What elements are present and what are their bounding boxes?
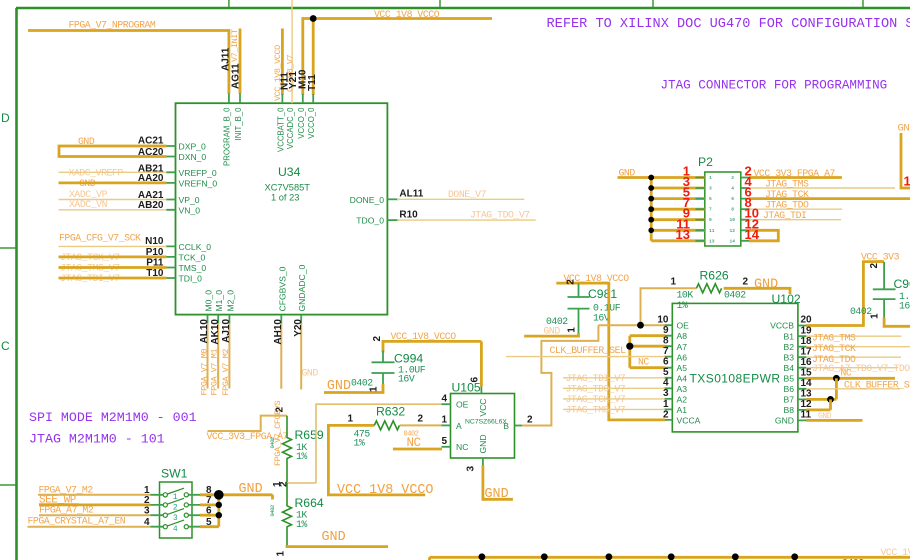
wire P2 pin12-pin14 loop — [749, 230, 778, 241]
svg-text:AB20: AB20 — [138, 200, 164, 211]
svg-text:NC: NC — [456, 442, 468, 452]
zone tick top 4 — [862, 0, 864, 8]
svg-text:GND: GND — [818, 412, 832, 421]
svg-text:4: 4 — [663, 378, 669, 389]
wire SW1 pin8 to GND — [200, 495, 273, 500]
wire JTAG_TCK B2 — [806, 346, 910, 348]
wire FPGA_V7_M0 — [207, 323, 209, 389]
svg-text:AH10: AH10 — [273, 319, 284, 345]
svg-text:JTAG CONNECTOR FOR PROGRAMMING: JTAG CONNECTOR FOR PROGRAMMING — [661, 79, 888, 93]
junction rail 6 — [791, 553, 798, 560]
svg-text:6: 6 — [731, 196, 734, 202]
svg-text:2: 2 — [527, 415, 533, 426]
wire B5-B7 tie vertical — [835, 378, 838, 399]
wire R632 pin2 to U105 A — [400, 424, 442, 426]
level shifter U102 box — [672, 303, 798, 432]
svg-text:A5: A5 — [677, 363, 688, 373]
svg-text:CFGBVS_0: CFGBVS_0 — [277, 266, 287, 311]
svg-text:B6: B6 — [783, 384, 794, 394]
wire JTAG_TCK_V7 to A2 — [563, 398, 665, 400]
wire V7_INIT to INIT_B_0 — [239, 29, 242, 95]
svg-text:XADC_VREFP: XADC_VREFP — [69, 168, 124, 179]
pin stub INIT_B_0 AG11 — [239, 94, 241, 104]
svg-text:JTAG_A7_TDO_V7_TDO: JTAG_A7_TDO_V7_TDO — [812, 363, 910, 374]
svg-text:0402: 0402 — [269, 437, 276, 449]
svg-text:JTAG_TMS: JTAG_TMS — [765, 178, 809, 189]
svg-text:AK10: AK10 — [210, 319, 221, 345]
svg-text:FPGA_V7_M0: FPGA_V7_M0 — [199, 349, 209, 396]
svg-text:VCC_3V3_FPGA_A7: VCC_3V3_FPGA_A7 — [754, 168, 836, 179]
svg-text:VREFP_0: VREFP_0 — [179, 168, 217, 178]
svg-text:3: 3 — [663, 388, 669, 399]
connector P2 box — [705, 172, 741, 246]
wire VCCA rail vertical — [609, 282, 665, 420]
svg-text:JTAG_TDO_V7: JTAG_TDO_V7 — [470, 210, 530, 221]
svg-text:AJ10: AJ10 — [221, 319, 232, 343]
P2 left pin stubs — [696, 178, 705, 241]
wire JTAG_TMS_V7 to A1 — [563, 408, 665, 410]
svg-text:4: 4 — [173, 525, 178, 534]
wire DONE_V7 — [397, 198, 524, 200]
svg-text:DONE_0: DONE_0 — [350, 195, 385, 205]
wire SW1 pin5 — [200, 525, 219, 528]
zone tick top 2 — [439, 0, 441, 8]
U102 left pin stubs — [664, 325, 672, 420]
junction rail 3 — [606, 553, 613, 560]
bottom power rail VCC_1V8 — [430, 557, 910, 560]
svg-text:AG11: AG11 — [231, 63, 242, 89]
svg-text:1: 1 — [870, 313, 881, 319]
svg-text:TMS_0: TMS_0 — [179, 263, 207, 273]
wire Y21 VCCADC drop — [291, 0, 293, 103]
svg-text:VCCA: VCCA — [677, 416, 701, 426]
wire N11 VCCBATT drop — [281, 29, 284, 96]
svg-text:10: 10 — [729, 217, 735, 223]
svg-text:A1: A1 — [677, 405, 688, 415]
svg-text:20: 20 — [801, 314, 813, 325]
net SEE_WP underline — [39, 503, 79, 505]
svg-text:16V: 16V — [593, 312, 610, 323]
svg-text:AL11: AL11 — [399, 188, 423, 199]
pin stub M10 — [302, 94, 304, 103]
svg-text:SW1: SW1 — [161, 467, 188, 481]
wire JTAG_TDI from pin10 — [749, 219, 841, 221]
svg-text:VCC_1V: VCC_1V — [881, 547, 910, 558]
junction P2 pin9 — [648, 217, 654, 223]
junction SW1 pin6 — [216, 512, 222, 518]
svg-text:12: 12 — [801, 399, 813, 410]
svg-text:VCCBATT_0: VCCBATT_0 — [276, 107, 285, 152]
SW1 switch element 3 — [151, 509, 201, 523]
junction P2 pin11 — [648, 228, 654, 234]
U105 pin stub A — [442, 424, 451, 426]
svg-text:GND: GND — [327, 379, 351, 394]
svg-text:8: 8 — [731, 207, 734, 213]
svg-text:1%: 1% — [354, 438, 365, 449]
svg-text:15: 15 — [801, 367, 813, 378]
wire FPGA_V7_M2 — [228, 323, 230, 389]
svg-text:NC: NC — [841, 368, 852, 379]
junction P2 pin7 — [648, 206, 654, 212]
svg-text:4: 4 — [144, 517, 150, 528]
junction SW1 pin7 — [216, 502, 222, 508]
svg-text:FPGA_V7_M1: FPGA_V7_M1 — [210, 349, 220, 396]
wire SW1 ganged vertical — [217, 495, 220, 527]
wire GND to VREFN — [59, 181, 167, 184]
svg-text:T11: T11 — [307, 74, 318, 91]
wire U102 OE row — [598, 324, 665, 326]
svg-text:A6: A6 — [677, 352, 688, 362]
svg-text:GND: GND — [485, 487, 509, 502]
svg-text:12: 12 — [729, 228, 735, 234]
svg-text:1: 1 — [441, 415, 447, 426]
switch SW1 box — [160, 482, 193, 538]
U105 pin stub B — [515, 425, 524, 427]
junction B5 — [833, 375, 840, 382]
pin stub PROGRAM_B_0 AJ11 — [228, 94, 230, 104]
svg-text:9: 9 — [709, 217, 712, 223]
wire P2 pin9 — [651, 218, 705, 221]
svg-text:17: 17 — [801, 346, 813, 357]
svg-text:GNDADC_0: GNDADC_0 — [297, 264, 307, 311]
svg-text:0402: 0402 — [724, 290, 746, 301]
wire JTAG_TDI_V7 to A4 — [563, 377, 665, 379]
wire CLK_BUFFER_SEL B6 — [806, 388, 900, 390]
svg-text:5: 5 — [441, 436, 447, 447]
svg-text:9: 9 — [663, 325, 669, 336]
wire NC stub — [393, 448, 442, 451]
wire VCC_1V8_VCCO top rail with M10 drop — [303, 19, 492, 96]
wire XADC_VN — [59, 209, 167, 211]
svg-text:R664: R664 — [295, 496, 324, 510]
zone tick left 2 — [0, 484, 16, 486]
wire JTAG_TMS from pin4 — [749, 187, 895, 189]
wire XADC_VREFP — [59, 171, 167, 173]
svg-text:AL10: AL10 — [199, 319, 210, 344]
svg-text:VCCO_0: VCCO_0 — [307, 107, 316, 139]
svg-text:FPGA_V7_M2: FPGA_V7_M2 — [221, 349, 231, 396]
wire CLK_BUFFER_SEL to A6 — [506, 356, 665, 358]
wire VCC to U105 pin6 — [480, 341, 483, 386]
svg-text:7: 7 — [663, 346, 669, 357]
FPGA U34 box — [176, 103, 388, 314]
svg-text:GND: GND — [478, 434, 488, 453]
wire P2 pin3 — [651, 187, 705, 190]
svg-text:B1: B1 — [783, 331, 794, 341]
svg-text:7: 7 — [709, 207, 712, 213]
svg-text:13: 13 — [676, 227, 690, 242]
svg-text:18: 18 — [801, 336, 813, 347]
svg-text:M1_0: M1_0 — [214, 290, 224, 312]
svg-text:5: 5 — [663, 367, 669, 378]
svg-text:TCK_0: TCK_0 — [179, 252, 206, 262]
svg-text:B2: B2 — [783, 342, 794, 352]
svg-text:B8: B8 — [783, 405, 794, 415]
junction rail 2 — [541, 553, 548, 560]
svg-text:GND: GND — [544, 325, 561, 336]
svg-text:1: 1 — [671, 277, 677, 288]
junction SW1 pin8 — [214, 490, 224, 500]
svg-text:SPI MODE M2M1M0 - 001: SPI MODE M2M1M0 - 001 — [29, 410, 197, 425]
pin stub TDO_0 R10 — [387, 219, 398, 221]
svg-text:NC: NC — [407, 436, 421, 450]
svg-text:5: 5 — [709, 196, 712, 202]
svg-text:GND: GND — [302, 368, 319, 379]
capacitor C994 top wire VCC_1V8_VCCO — [383, 341, 481, 352]
wire SW1 pin6 — [200, 514, 219, 517]
svg-text:1: 1 — [663, 399, 669, 410]
svg-text:VCCADC_0: VCCADC_0 — [286, 107, 295, 149]
svg-text:0402: 0402 — [269, 505, 276, 517]
wire JTAG_TDO B3 — [806, 356, 901, 358]
svg-text:14: 14 — [745, 227, 760, 242]
pin stub VCCBATT_0 N11 — [281, 94, 283, 103]
svg-text:VP_0: VP_0 — [179, 195, 200, 205]
svg-text:3: 3 — [144, 506, 150, 517]
svg-text:1%: 1% — [296, 451, 307, 462]
svg-text:INIT_B_0: INIT_B_0 — [234, 107, 243, 141]
wire JTAG_TMS_V7 — [59, 266, 167, 269]
wire R626 pin1 to OE — [641, 288, 697, 325]
svg-text:1: 1 — [348, 414, 354, 425]
U105 pin stub GND bottom — [482, 458, 484, 467]
sheet border left — [15, 8, 18, 560]
svg-text:A: A — [456, 421, 462, 431]
U105 pin stub OE — [442, 403, 451, 405]
svg-text:U34: U34 — [278, 165, 301, 179]
wire JTAG_TDO_V7 to A3 — [563, 387, 665, 389]
sheet border top — [16, 7, 910, 10]
zone tick top 1 — [228, 0, 230, 8]
svg-text:16V: 16V — [398, 374, 415, 385]
wire VCC_1V8_VCCO to R632 — [328, 425, 425, 495]
svg-text:JTAG_TDI: JTAG_TDI — [763, 210, 806, 221]
svg-text:A8: A8 — [677, 331, 688, 341]
svg-text:VCCB: VCCB — [770, 321, 794, 331]
svg-text:16: 16 — [899, 300, 910, 311]
resistor R664 — [283, 483, 292, 547]
svg-text:A2: A2 — [677, 395, 688, 405]
svg-text:CLK_BUFFER_SEL: CLK_BUFFER_SEL — [550, 345, 627, 356]
svg-text:FPGA_CRYSTAL_A7_EN: FPGA_CRYSTAL_A7_EN — [28, 515, 126, 526]
wire C9xx pin1 to GND — [884, 318, 910, 327]
junction P2 pin3 — [648, 185, 654, 191]
svg-text:CCLK_0: CCLK_0 — [179, 242, 212, 252]
svg-text:GND: GND — [754, 277, 778, 292]
svg-text:C90: C90 — [894, 277, 910, 291]
junction R626 at OE — [637, 322, 644, 329]
svg-text:1%: 1% — [296, 519, 307, 530]
wire JTAG_TCK_V7 — [59, 255, 167, 258]
svg-text:TDO_0: TDO_0 — [356, 216, 384, 226]
wire U105 B to U102 OE net — [522, 325, 598, 425]
wire C981 to GND — [524, 333, 578, 336]
zone tick top 3 — [652, 0, 654, 8]
U102 right pin stubs — [798, 326, 807, 421]
svg-text:VCC_3V3: VCC_3V3 — [861, 252, 900, 263]
wire R664 to GND — [287, 545, 388, 547]
svg-text:19: 19 — [801, 325, 813, 336]
wire FPGA_V7_CFGBVS — [280, 323, 282, 389]
svg-text:6: 6 — [663, 357, 669, 368]
wire P2 pin11 — [651, 229, 705, 232]
P2 right pin stubs — [741, 178, 751, 241]
wire SW1 pin3 — [39, 514, 151, 516]
capacitor C994 plates — [372, 351, 395, 386]
wire GND from GNDADC — [300, 323, 302, 390]
wire U102 A7 — [630, 345, 665, 348]
wire B7 — [806, 398, 836, 401]
resistor R632 — [374, 421, 399, 430]
resistor R626 — [696, 284, 721, 293]
svg-text:M2_0: M2_0 — [225, 290, 235, 312]
svg-text:GND: GND — [239, 482, 263, 497]
junction A7 tie — [626, 343, 633, 350]
svg-text:VN_0: VN_0 — [179, 205, 201, 215]
pin stub CFGBVS_0 AH10 — [280, 315, 282, 324]
svg-text:B5: B5 — [783, 373, 794, 383]
svg-text:N10: N10 — [145, 236, 164, 247]
svg-text:P2: P2 — [698, 155, 713, 169]
svg-text:VREFN_0: VREFN_0 — [179, 178, 218, 188]
capacitor C9xx at VCC_3V3 — [873, 262, 896, 319]
svg-text:13: 13 — [709, 238, 715, 244]
wire JTAG_TMS B1 — [806, 335, 901, 337]
SW1 switch element 4 — [151, 520, 201, 534]
svg-text:14: 14 — [801, 378, 813, 389]
svg-text:VCC: VCC — [478, 399, 488, 417]
wire VCCB to VCC_3V3 — [806, 262, 884, 326]
svg-text:1: 1 — [276, 551, 287, 557]
wire B8 — [806, 408, 830, 411]
svg-text:10: 10 — [657, 314, 669, 325]
svg-text:4: 4 — [441, 394, 447, 405]
svg-text:Y20: Y20 — [293, 319, 304, 337]
svg-text:8: 8 — [663, 336, 669, 347]
svg-text:A4: A4 — [677, 373, 688, 383]
svg-text:2: 2 — [418, 414, 424, 425]
svg-text:TDI_0: TDI_0 — [179, 274, 203, 284]
junction rail 4 — [668, 553, 675, 560]
junction P2 pin1 — [648, 175, 654, 181]
pin stub GNDADC_0 Y20 — [300, 315, 302, 324]
junction rail 5 — [732, 553, 739, 560]
svg-text:P10: P10 — [146, 247, 164, 258]
wire JTAG_TCK from pin6 — [749, 197, 910, 200]
svg-text:B4: B4 — [783, 363, 794, 373]
wire R626 pin2 to GND — [724, 288, 790, 294]
U105 pin stub NC — [442, 446, 451, 448]
wire U105 GND — [483, 466, 513, 500]
wire JTAG_TDO from pin8 — [749, 208, 842, 210]
wire SW1 pin4 — [28, 526, 151, 528]
junction B7 — [827, 396, 834, 403]
wire P2 pin7 — [651, 208, 705, 211]
svg-text:1%: 1% — [677, 300, 688, 311]
pin stub M2_0 AJ10 — [228, 315, 230, 324]
junction P2 pin5 — [648, 196, 654, 202]
buffer U105 box — [451, 394, 515, 459]
wire GND loop DXP/DXN — [59, 146, 167, 157]
svg-text:NC: NC — [638, 357, 649, 368]
wire FPGA_CFG_V7_SCK — [59, 245, 167, 247]
svg-text:B7: B7 — [783, 395, 794, 405]
svg-text:11: 11 — [709, 228, 715, 234]
svg-text:1: 1 — [567, 327, 578, 333]
svg-text:OE: OE — [456, 400, 469, 410]
svg-text:DXP_0: DXP_0 — [179, 142, 206, 152]
svg-text:VCC_1V8_VCCO: VCC_1V8_VCCO — [374, 9, 440, 20]
svg-text:JTAG_TMS: JTAG_TMS — [812, 333, 856, 344]
svg-text:1: 1 — [904, 174, 910, 189]
svg-text:B3: B3 — [783, 352, 794, 362]
wire FPGA_V7_M1 — [217, 323, 219, 389]
svg-text:2: 2 — [372, 336, 383, 342]
wire junction up to OE pin4 — [316, 404, 442, 483]
svg-text:A7: A7 — [677, 342, 688, 352]
svg-text:C981: C981 — [588, 287, 617, 301]
svg-text:DONE_V7: DONE_V7 — [448, 189, 487, 200]
svg-text:1: 1 — [709, 175, 712, 181]
svg-text:C: C — [1, 339, 10, 353]
svg-text:CLK_BUFFER_SE: CLK_BUFFER_SE — [844, 379, 910, 390]
svg-text:R626: R626 — [700, 268, 729, 282]
svg-text:A3: A3 — [677, 384, 688, 394]
svg-text:XC7V585T: XC7V585T — [265, 183, 311, 193]
svg-text:XADC_VN: XADC_VN — [69, 199, 108, 210]
svg-text:3: 3 — [709, 186, 712, 192]
wire SW1 pin7 — [200, 503, 219, 506]
svg-text:VCCO_0: VCCO_0 — [297, 107, 306, 139]
svg-text:1 of 23: 1 of 23 — [271, 193, 299, 203]
svg-text:11: 11 — [801, 410, 812, 421]
svg-text:2: 2 — [274, 407, 285, 413]
capacitor C981 — [568, 284, 590, 335]
wire R659/R664 junction to U105 OE — [287, 482, 316, 484]
wire XADC_VP — [59, 199, 167, 201]
svg-text:2: 2 — [743, 277, 749, 288]
svg-text:AC21: AC21 — [138, 136, 164, 147]
wire GND edge connector — [901, 133, 910, 188]
svg-text:R659: R659 — [295, 428, 324, 442]
svg-text:REFER TO XILINX DOC UG470 FOR: REFER TO XILINX DOC UG470 FOR CONFIGURAT… — [547, 17, 910, 32]
junction T11 rail — [310, 15, 317, 22]
svg-text:GND: GND — [775, 416, 794, 426]
svg-text:14: 14 — [729, 238, 735, 244]
wire T11 drop — [312, 19, 315, 96]
wire P2 pin5 — [651, 197, 705, 200]
svg-text:AC20: AC20 — [138, 147, 164, 158]
svg-text:AA20: AA20 — [138, 173, 164, 184]
svg-text:3: 3 — [466, 466, 477, 472]
zone tick left 1 — [0, 247, 16, 249]
U105 pin stub VCC top — [480, 385, 482, 394]
wire P2 GND bus — [618, 178, 705, 241]
SW1 switch element 2 — [151, 498, 201, 512]
svg-text:VCC_1V8_VCCO: VCC_1V8_VCCO — [391, 331, 457, 342]
wire SW1 pin1 — [38, 494, 151, 496]
wire B7-B8 tie vertical — [829, 399, 832, 410]
wire VCC_3V3_FPGA_A7 to R659 — [208, 416, 288, 431]
wire U102 GND pin 11 — [806, 419, 862, 422]
wire B5 NC tie — [806, 377, 895, 380]
svg-text:JTAG_TCK: JTAG_TCK — [812, 343, 856, 354]
SW1 switch element 1 — [151, 488, 201, 502]
wire FPGA_V7_NPROGRAM to PROGRAM_B_0 — [28, 31, 229, 95]
svg-text:FPGA_A7_M2: FPGA_A7_M2 — [39, 504, 94, 515]
svg-text:JTAG_TCK: JTAG_TCK — [765, 189, 809, 200]
svg-text:JTAG M2M1M0 - 101: JTAG M2M1M0 - 101 — [29, 432, 165, 447]
